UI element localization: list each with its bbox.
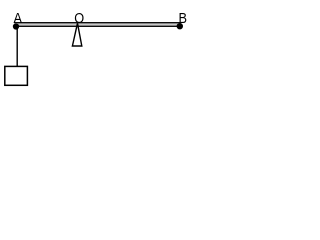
beam gray core middle row bbox=[14, 24, 181, 25]
beam gray core lower row bbox=[14, 25, 181, 26]
beam bottom edge line bbox=[14, 26, 181, 27]
svg-text:A: A bbox=[14, 9, 23, 26]
string from A to weight bbox=[16, 26, 18, 66]
fulcrum triangle at O bbox=[72, 23, 81, 46]
beam top edge line bbox=[14, 22, 181, 23]
pivot dot B bbox=[177, 23, 183, 29]
svg-text:O: O bbox=[74, 9, 84, 26]
pivot dot A bbox=[13, 23, 19, 29]
beam gray core upper row (lever arm A-B) bbox=[14, 23, 181, 24]
background bbox=[0, 0, 192, 92]
weight box bbox=[5, 66, 28, 85]
svg-text:B: B bbox=[179, 9, 188, 26]
